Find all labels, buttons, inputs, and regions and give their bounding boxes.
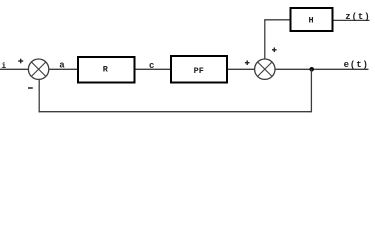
wire elbow to H input bbox=[264, 19, 290, 21]
svg-text:c: c bbox=[149, 61, 154, 71]
svg-text:i: i bbox=[1, 62, 6, 71]
wire PF to S2 bbox=[228, 68, 255, 70]
wire feedback up to S1 bbox=[38, 79, 40, 112]
svg-text:a: a bbox=[59, 61, 65, 71]
block H bbox=[291, 8, 333, 31]
svg-text:PF: PF bbox=[194, 66, 204, 76]
wire R to PF bbox=[136, 68, 171, 70]
wire S2 to output e(t) bbox=[275, 68, 368, 70]
wire S2 up toward H bbox=[264, 20, 266, 59]
block PF bbox=[171, 56, 227, 83]
wire feedback bottom bbox=[39, 111, 312, 113]
svg-text:z(t): z(t) bbox=[345, 12, 370, 22]
junction dot node bbox=[309, 67, 314, 72]
svg-text:e(t): e(t) bbox=[344, 60, 369, 70]
summing junction S2 bbox=[255, 59, 275, 79]
svg-text:R: R bbox=[103, 65, 109, 75]
plus sign at summing junction S1 left input bbox=[18, 59, 23, 64]
summing junction S1 bbox=[28, 59, 48, 79]
minus sign at summing junction S1 feedback input bbox=[28, 87, 33, 89]
plus sign at summing junction S2 left input bbox=[245, 60, 250, 65]
wire S1 to R bbox=[49, 68, 77, 70]
wire H to z(t) bbox=[334, 19, 370, 21]
block R bbox=[78, 57, 135, 83]
svg-text:H: H bbox=[308, 16, 313, 26]
wire node down bbox=[310, 69, 312, 112]
plus sign at summing junction S2 top input bbox=[272, 48, 277, 53]
wire input i bbox=[0, 68, 29, 70]
